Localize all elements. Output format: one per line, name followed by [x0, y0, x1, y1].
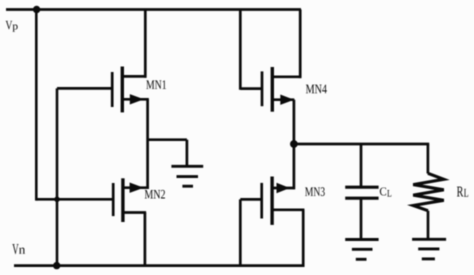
- wire MN3 gate drop to Vn rail: [239, 199, 242, 265]
- node gate bus junction: [54, 197, 60, 203]
- node Vp junction dot: [33, 6, 40, 13]
- wire RL drop from output wire: [427, 144, 430, 174]
- resistor RL zigzag: [413, 173, 444, 210]
- wire CL tap down from output wire: [360, 144, 363, 186]
- ground G1: [171, 166, 203, 186]
- wire MN2 source drop to Vn rail: [144, 213, 147, 266]
- label CL: [380, 187, 386, 195]
- label MN1: [146, 80, 166, 89]
- label MN4: [306, 85, 327, 94]
- wire left rail (Vp dot down to gate bus): [35, 10, 38, 201]
- wire Vp top rail: [6, 8, 301, 11]
- transistor MN1: [57, 67, 149, 113]
- wire Vn bottom rail: [14, 264, 305, 267]
- wire MN1 gate vertical down: [56, 88, 59, 199]
- capacitor CL: [345, 187, 378, 239]
- label Vn: [12, 244, 18, 254]
- wire gate bus horizontal (rail to MN2 gate): [36, 198, 112, 201]
- wire gate bus down to Vn rail: [56, 199, 59, 265]
- label MN2: [145, 190, 165, 199]
- wire MN3 drain drop to Vn rail: [302, 210, 305, 267]
- wire top rail right end drop to MN4 drain: [299, 10, 302, 79]
- wire MN1 source down to MN2 drain: [146, 99, 149, 189]
- wire MN1 drain drop from top rail: [144, 10, 147, 78]
- transistor MN3: [240, 177, 304, 225]
- transistor MN2: [113, 178, 149, 222]
- wire tap to ground G1: [148, 138, 187, 141]
- transistor MN4: [240, 67, 301, 112]
- wire MN4 source down through output node to MN3: [293, 100, 296, 190]
- ground G3 under RL: [412, 239, 446, 259]
- node Vn junction dot: [53, 262, 60, 269]
- wire MN4 gate drop from top rail: [239, 10, 242, 90]
- node output junction dot: [290, 140, 298, 148]
- ground G2 under CL: [345, 240, 378, 260]
- label MN3: [305, 187, 325, 196]
- wire RL bottom lead: [427, 211, 430, 240]
- label RL: [457, 187, 463, 197]
- wire output horizontal to RL: [294, 143, 429, 146]
- label Vp: [6, 21, 13, 30]
